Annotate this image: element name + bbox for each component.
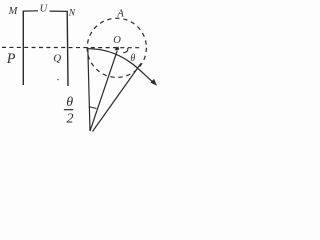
exit velocity line <box>138 69 154 83</box>
svg-text:O: O <box>113 35 121 46</box>
particle trajectory arc inside field region <box>88 49 138 69</box>
svg-text:M: M <box>8 6 19 17</box>
plate N (right vertical plate) <box>66 11 69 86</box>
radius construction line with arrow to O <box>90 51 117 132</box>
plate M (left vertical plate) <box>22 11 24 85</box>
svg-text:Q: Q <box>53 53 61 65</box>
wire top-right segment <box>50 10 68 12</box>
angle theta arc at O <box>123 48 128 53</box>
wire top-left segment <box>23 10 38 12</box>
entry line (vertical chord construction line) <box>88 47 90 131</box>
fraction bar <box>64 109 73 111</box>
svg-text:P: P <box>6 51 16 67</box>
angle theta/2 tick at vertex <box>89 107 97 109</box>
svg-text:N: N <box>68 9 76 19</box>
center dot O <box>115 47 117 49</box>
svg-text:2: 2 <box>67 111 74 126</box>
svg-text:A: A <box>116 8 124 19</box>
exit velocity arrowhead <box>150 79 157 86</box>
construction line to exit point E <box>93 63 142 131</box>
svg-text:θ: θ <box>66 95 73 110</box>
svg-text:θ: θ <box>130 53 135 64</box>
dashed axis line through P Q O <box>2 46 141 48</box>
dashed field-region circle A <box>87 18 146 77</box>
speck dot between plates <box>57 79 58 80</box>
